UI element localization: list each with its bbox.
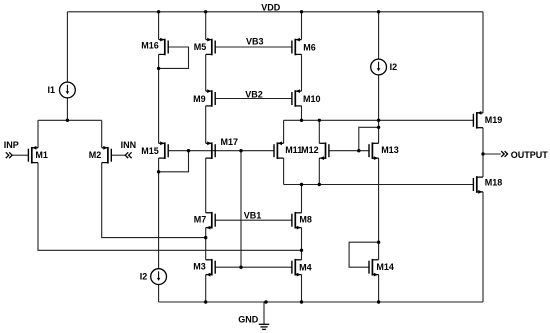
svg-text:VB2: VB2 [245, 89, 263, 99]
svg-text:M16: M16 [141, 40, 159, 50]
wire M9-M17 lead [205, 106, 207, 143]
wire M13 drain lead [378, 120, 380, 143]
wire node B rail [284, 184, 474, 186]
transistor M9 (PMOS) [193, 89, 215, 107]
wire M6-M10 lead [301, 54, 303, 91]
wire M2 source lead [101, 120, 103, 148]
svg-text:M4: M4 [299, 263, 312, 273]
svg-text:OUTPUT: OUTPUT [511, 150, 549, 160]
node gate tie bottom [239, 266, 242, 269]
wire M16 top lead [158, 12, 160, 40]
node M1 drain node [300, 249, 303, 252]
node node A / M12 [318, 119, 321, 122]
wire I2 top lead [378, 12, 380, 59]
node GND stem [264, 300, 267, 303]
transistor M14 (NMOS) [369, 259, 394, 277]
wire VDD rail [67, 11, 483, 13]
transistor M10 (PMOS) [292, 89, 321, 107]
svg-text:M9: M9 [193, 94, 206, 104]
current source I2 [140, 269, 167, 285]
svg-text:M2: M2 [89, 150, 102, 160]
wire M5-M9 lead [205, 54, 207, 91]
wire M15 gate-drain loop [159, 151, 189, 172]
transistor M17 (PMOS) [206, 137, 238, 159]
node node A / I2-M13 [377, 119, 380, 122]
wire M3-M4 gate wire [215, 266, 292, 268]
wire M1 source lead [37, 120, 39, 148]
ground symbol [259, 324, 269, 329]
svg-text:GND: GND [238, 315, 259, 325]
node node A / M10 [300, 119, 303, 122]
svg-text:M13: M13 [381, 145, 399, 155]
wire INN gate wire [111, 154, 125, 156]
wire M11 bottom lead [283, 158, 285, 184]
wire M16 gate-drain loop [159, 47, 189, 68]
node VDD/M6 [300, 10, 303, 13]
transistor M1 (PMOS) [28, 146, 48, 164]
node output node [481, 152, 484, 155]
wire INP gate wire [13, 154, 29, 156]
node GND/M4 [300, 300, 303, 303]
wire VB3 bias wire [215, 46, 292, 48]
svg-text:INN: INN [121, 140, 137, 150]
current source I1 [47, 82, 75, 98]
wire M12 bottom lead [318, 158, 320, 184]
node GND/M14 [377, 300, 380, 303]
wire gate tie vertical [240, 151, 242, 268]
wire I1 to tail [66, 98, 68, 120]
svg-text:M1: M1 [35, 150, 48, 160]
wire M14 gate loop [349, 242, 379, 267]
transistor M18 (NMOS) [473, 176, 502, 194]
svg-text:M19: M19 [485, 115, 503, 125]
wire M14 source lead [378, 275, 380, 302]
wire M13 gate-drain loop [359, 127, 379, 150]
svg-text:INP: INP [4, 140, 19, 150]
wire I2 bottom lead [158, 285, 160, 303]
node gate tie top [239, 149, 242, 152]
node M16 gate-drain [157, 67, 160, 70]
wire M11 top lead [283, 120, 285, 143]
wire VB2 bias wire [215, 98, 292, 100]
port OUTPUT chevron [501, 151, 507, 157]
port INP chevron [6, 152, 12, 158]
svg-text:M6: M6 [303, 42, 316, 52]
wire M6 top lead [301, 12, 303, 40]
node tail junction [66, 119, 69, 122]
svg-text:VB3: VB3 [246, 37, 264, 47]
node GND/M3 [204, 300, 207, 303]
svg-text:VDD: VDD [261, 2, 281, 12]
node VDD/I2 [377, 10, 380, 13]
port INN chevron [125, 152, 131, 158]
wire GND rail [159, 301, 483, 303]
wire M19 top lead [482, 12, 484, 113]
current source I2 [371, 59, 397, 75]
transistor M13 (NMOS) [369, 142, 399, 160]
wire I2 to node A [378, 75, 380, 120]
wire M1 drain to M8 source node [38, 163, 302, 251]
wire M8 drain lead [301, 185, 303, 213]
wire M17-M7 lead [205, 158, 207, 213]
wire M13 source to M14 drain [378, 158, 380, 260]
svg-text:M7: M7 [194, 215, 207, 225]
node M13 gate junction [357, 149, 360, 152]
svg-text:VB1: VB1 [244, 210, 262, 220]
transistor M4 (NMOS) [292, 259, 312, 277]
wire M8-M4 lead [301, 228, 303, 260]
wire M12 top lead [318, 120, 320, 143]
transistor M11 (PMOS) [274, 141, 302, 159]
wire M12-M13 gate wire [329, 150, 369, 152]
node M13 loop T [377, 126, 380, 129]
wire M2 drain to M7 source node [102, 163, 206, 238]
transistor M19 (PMOS) [473, 111, 502, 129]
transistor M16 (PMOS) [141, 38, 168, 56]
wire M5 top lead [205, 12, 207, 40]
transistor M8 (NMOS) [292, 212, 312, 230]
wire M10 drain lead [301, 106, 303, 120]
node M15 drain junction [157, 170, 160, 173]
wire output wire [483, 153, 501, 155]
transistor M12 (NMOS) [301, 142, 329, 160]
svg-text:M12: M12 [301, 145, 319, 155]
node M2 drain node [204, 236, 207, 239]
wire VB1 bias wire [215, 219, 292, 221]
svg-text:M11: M11 [285, 145, 302, 155]
wire I1 top lead [66, 12, 68, 82]
wire M18 source lead [482, 192, 484, 302]
wire M3 source lead [205, 275, 207, 302]
svg-text:I1: I1 [47, 85, 55, 95]
wire M19-M18 output lead [482, 128, 484, 177]
svg-text:I2: I2 [140, 272, 148, 282]
transistor M15 (PMOS) [141, 141, 168, 159]
transistor M5 (PMOS) [194, 38, 215, 56]
transistor M3 (NMOS) [193, 259, 215, 277]
wire node A rail [284, 119, 474, 121]
svg-text:M5: M5 [194, 42, 207, 52]
svg-text:M14: M14 [376, 262, 394, 272]
node VDD/M16 [157, 10, 160, 13]
transistor M6 (PMOS) [292, 38, 316, 56]
svg-text:M8: M8 [299, 215, 312, 225]
node VDD/M5 [204, 10, 207, 13]
node M15 gate junction [187, 149, 190, 152]
wire M4 source lead [301, 275, 303, 302]
svg-text:M10: M10 [303, 94, 321, 104]
node node B / M8 [300, 183, 303, 186]
svg-text:M3: M3 [193, 262, 206, 272]
wire M7-M3 lead [205, 228, 207, 260]
svg-text:M18: M18 [485, 178, 503, 188]
node M14 gate-drain [377, 241, 380, 244]
transistor M7 (NMOS) [194, 212, 215, 230]
wire tail bar [38, 119, 102, 121]
wire M15-M17-M11 gate wire [168, 150, 274, 152]
svg-text:M17: M17 [221, 137, 239, 147]
svg-text:M15: M15 [141, 146, 159, 156]
wire M15 to I2 lead [158, 158, 160, 269]
wire GND stem [263, 302, 265, 324]
node node B / M12 [318, 183, 321, 186]
svg-text:I2: I2 [390, 62, 398, 72]
transistor M2 (PMOS) [89, 146, 112, 164]
wire M16 to M15 lead [158, 54, 160, 143]
